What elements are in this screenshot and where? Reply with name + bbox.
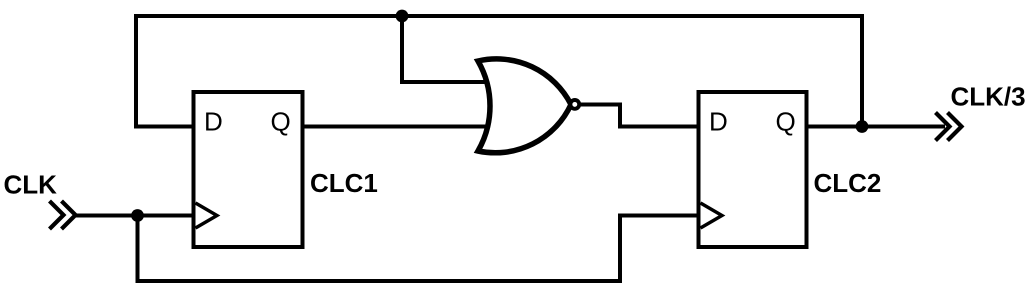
svg-text:D: D — [709, 107, 728, 137]
inverting bubble on NOR output — [570, 100, 579, 109]
svg-text:CLC1: CLC1 — [310, 168, 378, 198]
svg-text:D: D — [204, 107, 223, 137]
port marker: CLK input double chevron — [50, 201, 76, 229]
port marker: CLK/3 output double chevron — [936, 113, 962, 141]
node: junction on CLK/3 output wire feeding top feedback — [856, 120, 869, 133]
svg-text:CLK/3: CLK/3 — [951, 82, 1026, 112]
flip-flop CLC2 — [699, 92, 807, 247]
node: junction on CLK wire feeding bottom feedback — [131, 209, 144, 222]
NOR gate U1 — [478, 59, 579, 153]
flip-flop CLC1 — [194, 92, 303, 247]
wire: NOR gate top input dropping from top feedback wire — [402, 14, 492, 82]
svg-text:Q: Q — [271, 107, 291, 137]
wire: feedback net from CLK/3 node up over the top down to D of CLC1 — [136, 16, 862, 128]
node: junction on top feedback wire feeding NOR input — [396, 10, 409, 23]
svg-text:CLC2: CLC2 — [814, 168, 882, 198]
svg-text:CLK: CLK — [4, 170, 58, 200]
clock edge triangle of CLC1 — [196, 203, 218, 228]
wire: Q output of CLC1 to NOR gate bottom input — [303, 125, 493, 129]
wire: CLK feedback along the bottom to clock pin of CLC2 — [138, 214, 699, 282]
wire: Q output of CLC2 to CLK/3 port — [807, 125, 946, 129]
svg-text:Q: Q — [776, 107, 796, 137]
clock edge triangle of CLC2 — [701, 203, 723, 228]
wire: CLK input to clock pin of CLC1 — [73, 214, 194, 218]
wire: NOR gate output to D input of CLC2 — [576, 105, 699, 127]
